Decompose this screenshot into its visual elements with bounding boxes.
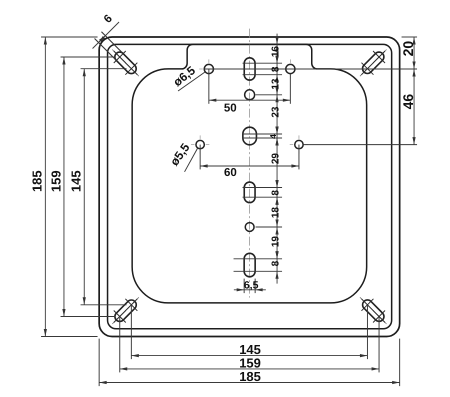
label bottom 145 xyxy=(239,342,261,357)
svg-text:13: 13 xyxy=(270,78,281,90)
label 50 xyxy=(224,103,237,115)
top-left corner slot xyxy=(113,50,138,75)
dim 60 line xyxy=(200,164,299,167)
label dia 6,5 xyxy=(171,63,199,89)
label 60 xyxy=(224,167,237,179)
bottom-right corner slot xyxy=(361,298,386,323)
svg-text:8: 8 xyxy=(270,190,281,196)
svg-text:18: 18 xyxy=(270,207,281,219)
svg-text:8: 8 xyxy=(270,66,281,72)
bottom-left corner slot xyxy=(113,298,138,323)
label 6 xyxy=(102,13,115,26)
left dim 145 xyxy=(83,69,86,305)
outer plate outline 185x185 xyxy=(99,37,400,337)
top-right slot position crosses xyxy=(361,51,385,75)
svg-text:46: 46 xyxy=(400,94,416,110)
center slot 4 xyxy=(244,253,255,277)
svg-text:185: 185 xyxy=(30,170,45,192)
bottom extension lines xyxy=(99,306,400,387)
mid-right hole 5.5 centerline ticks xyxy=(290,135,308,153)
label left 185 xyxy=(30,170,45,192)
dim 6 extension lines xyxy=(95,32,124,61)
top-right corner slot xyxy=(361,50,386,75)
svg-text:145: 145 xyxy=(69,170,84,192)
bottom-right slot position crosses xyxy=(361,299,385,323)
leader 6.5 xyxy=(178,72,205,91)
chain dimension labels xyxy=(268,46,282,267)
bottom dim 185 xyxy=(99,381,400,384)
upper-left hole 6.5 xyxy=(204,64,213,73)
dim 6,5 extension lines xyxy=(244,279,255,294)
label 46 xyxy=(400,94,416,110)
label bottom 185 xyxy=(239,369,261,384)
top-left slot axis centerline xyxy=(112,50,139,77)
leader 5.5 xyxy=(185,149,198,172)
dim 50 extension stubs xyxy=(209,69,290,104)
left dim 185 xyxy=(44,37,47,337)
center slot 1 xyxy=(244,58,255,80)
chain tick lines xyxy=(234,63,282,271)
svg-text:29: 29 xyxy=(270,153,281,165)
bottom-right slot axis centerline xyxy=(360,297,387,324)
center hole 1 xyxy=(245,90,255,100)
center slot 3 xyxy=(244,182,255,203)
label 20 xyxy=(400,41,416,57)
top-left slot position crosses xyxy=(114,51,138,75)
bottom-left slot position crosses xyxy=(114,299,138,323)
dim 60 extension stubs xyxy=(200,145,299,170)
left dim 159 xyxy=(62,57,65,317)
dim 6 line xyxy=(93,22,120,49)
label bottom 159 xyxy=(239,356,261,371)
left extension lines xyxy=(41,37,127,337)
svg-text:20: 20 xyxy=(400,41,416,57)
bottom dim 145 xyxy=(131,354,367,357)
svg-text:60: 60 xyxy=(224,167,237,179)
inner rim contour xyxy=(108,44,392,328)
vertical centerline xyxy=(249,29,251,298)
svg-text:23: 23 xyxy=(270,106,281,118)
top-right slot axis centerline xyxy=(360,50,387,77)
svg-text:16: 16 xyxy=(270,46,281,58)
mid-right hole 5.5 xyxy=(295,140,303,148)
dim 6,5 line xyxy=(234,288,266,291)
svg-text:19: 19 xyxy=(270,236,281,248)
bottom dim 159 xyxy=(120,367,379,370)
label 6,5 xyxy=(244,280,259,292)
upper-right hole 6.5 centerline ticks xyxy=(281,59,300,78)
svg-text:6,5: 6,5 xyxy=(244,280,259,292)
chain arrowheads xyxy=(275,37,278,279)
right dim line xyxy=(412,37,415,145)
upper-right hole 6.5 xyxy=(286,64,295,73)
svg-text:50: 50 xyxy=(224,103,237,115)
dimension chain line xyxy=(276,34,278,284)
right extension lines xyxy=(304,37,418,145)
center hole 2 xyxy=(245,223,254,232)
center slot 2 xyxy=(243,127,257,145)
mid-left hole 5.5 xyxy=(196,140,204,148)
svg-text:4: 4 xyxy=(268,134,278,139)
raised center contour with top channel xyxy=(132,44,366,303)
upper hole row extension line xyxy=(204,68,417,70)
label dia 5,5 xyxy=(167,140,192,168)
svg-text:159: 159 xyxy=(48,170,63,192)
bottom-left slot axis centerline xyxy=(112,297,139,324)
label left 145 xyxy=(69,170,84,192)
upper-left hole 6.5 centerline ticks xyxy=(199,59,218,78)
svg-text:185: 185 xyxy=(239,369,261,384)
svg-text:8: 8 xyxy=(270,260,281,266)
dim 50 line xyxy=(209,99,290,102)
mid-left hole 5.5 centerline ticks xyxy=(191,135,209,153)
label left 159 xyxy=(48,170,63,192)
